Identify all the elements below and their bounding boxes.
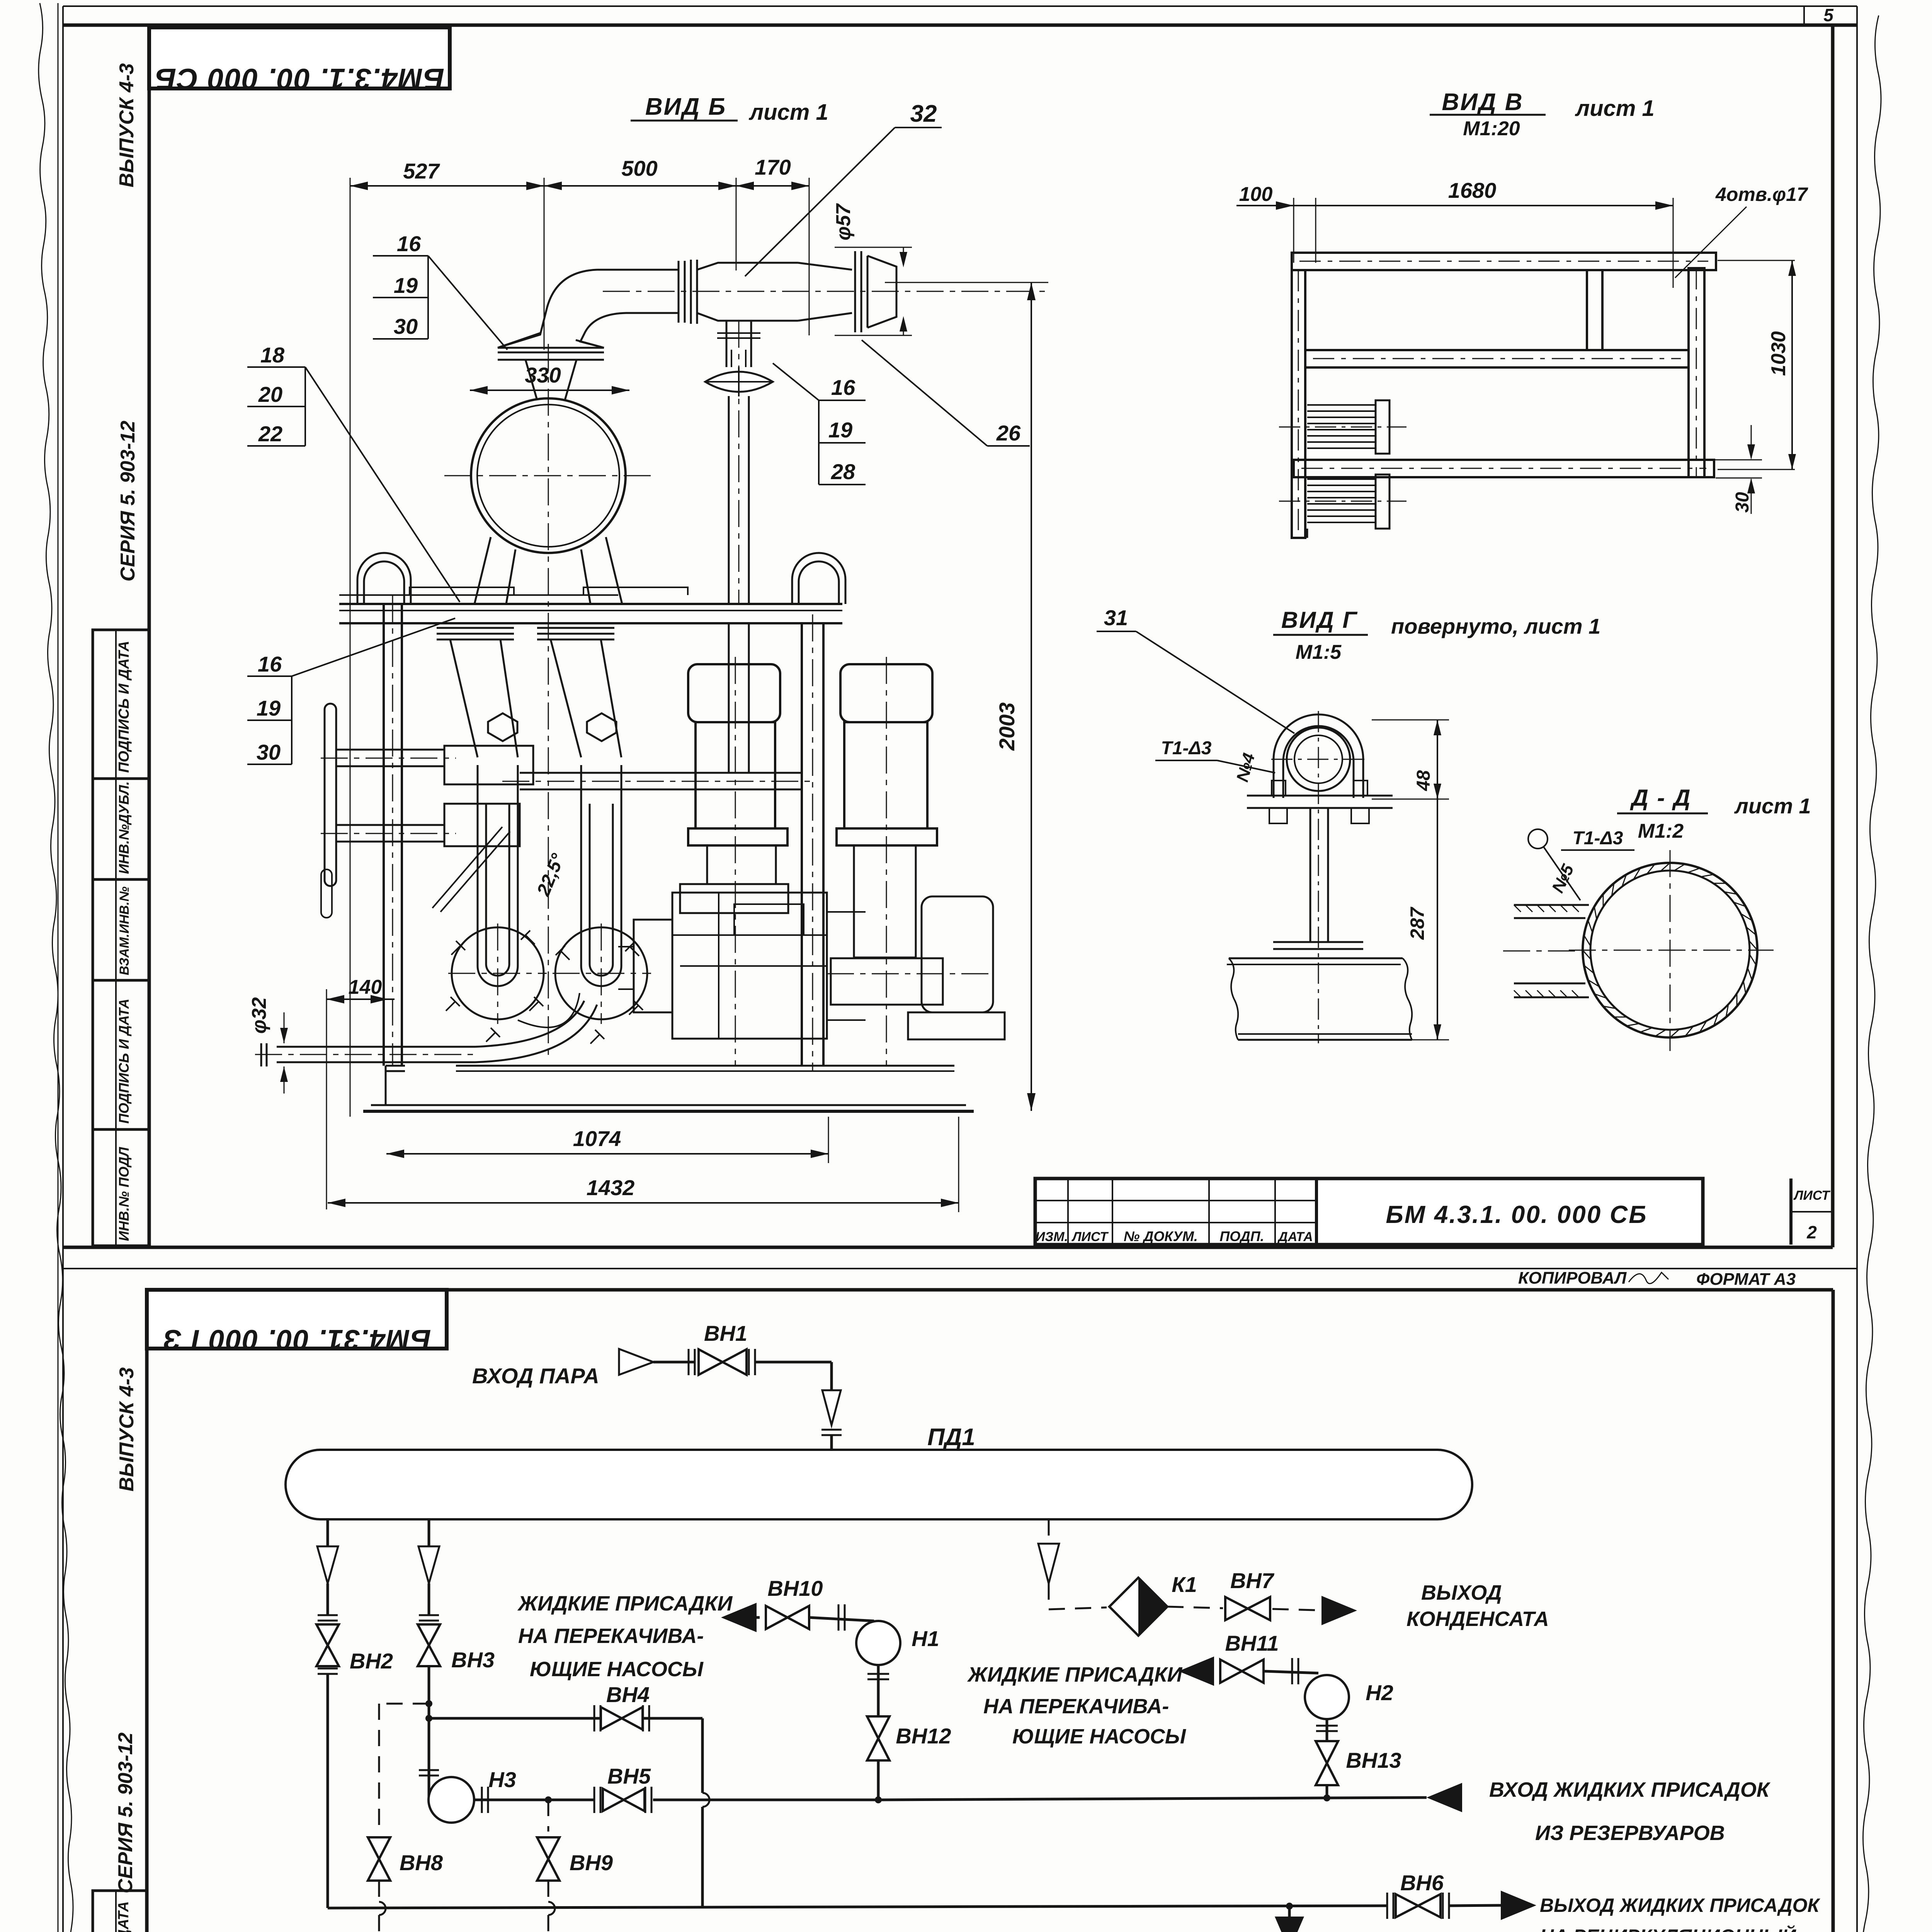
svg-text:1432: 1432 (587, 1175, 635, 1200)
svg-text:ПД1: ПД1 (927, 1424, 975, 1451)
svg-text:ПОДПИСЬ И ДАТА: ПОДПИСЬ И ДАТА (116, 998, 132, 1124)
svg-text:30: 30 (394, 314, 418, 338)
U-bolt left (357, 553, 411, 604)
dashed ВН7 to outlet (1272, 1609, 1329, 1611)
svg-text:ВН1: ВН1 (704, 1321, 747, 1345)
base (363, 1066, 974, 1111)
big pipe under clamp (1227, 958, 1412, 1040)
svg-text:19: 19 (257, 696, 281, 720)
top sheet margin cells (93, 630, 149, 1246)
view title ВИД Б (631, 94, 828, 125)
svg-text:ЮЩИЕ НАСОСЫ: ЮЩИЕ НАСОСЫ (530, 1658, 704, 1681)
section D-D pipe circle (1503, 850, 1774, 1051)
callout stack 16 19 30 upper (373, 231, 507, 350)
svg-text:ПОДПИСЬ И ДАТА: ПОДПИСЬ И ДАТА (116, 641, 132, 773)
frame structure view V (1292, 253, 1716, 538)
svg-text:ВХОД ЖИДКИХ ПРИСАДОК: ВХОД ЖИДКИХ ПРИСАДОК (1489, 1778, 1771, 1801)
wire ВН10 to pump H1 (809, 1617, 874, 1621)
callout stack 18 20 22 (247, 343, 460, 602)
U-bolt right (792, 553, 845, 604)
labels T1-D3 no4 (1155, 738, 1275, 784)
long additive wire to right (653, 1794, 1427, 1803)
valve ВН7 (1225, 1568, 1275, 1620)
svg-text:ПОДПИСЬ И ДАТА: ПОДПИСЬ И ДАТА (116, 1901, 132, 1932)
valve ВН3 (418, 1624, 495, 1672)
svg-text:лист 1: лист 1 (748, 100, 828, 125)
wire ВН13 to header (1326, 1785, 1328, 1798)
label ЖИДКИЕ ПРИСАДКИ НА ПЕРЕКАЧИВАЮЩИЕ НАСОСЫ right (967, 1663, 1186, 1748)
motors right (680, 657, 943, 1066)
top sheet frame (63, 25, 1857, 1247)
svg-text:Н1: Н1 (912, 1626, 939, 1651)
bottom sheet left margin texts (114, 1367, 138, 1893)
condensate outlet arrow (1321, 1596, 1357, 1625)
valve ВН1 (689, 1321, 755, 1375)
svg-text:НА ПЕРЕКАЧИВА-: НА ПЕРЕКАЧИВА- (518, 1624, 704, 1648)
svg-text:19: 19 (394, 273, 418, 298)
label ВХОД ЖИДКИХ ПРИСАДОК ИЗ РЕЗЕРВУАРОВ (1489, 1778, 1771, 1845)
top sheet title block (1035, 1179, 1833, 1289)
dashed below ВН9 to drain header (379, 1881, 555, 1932)
svg-text:ВИД В: ВИД В (1442, 89, 1523, 116)
label ВЫХОД КОНДЕНСАТА (1406, 1581, 1549, 1631)
svg-text:16: 16 (397, 231, 421, 256)
dim 140 and phi32 (248, 976, 395, 1209)
svg-text:ЖИДКИЕ ПРИСАДКИ: ЖИДКИЕ ПРИСАДКИ (967, 1663, 1183, 1686)
svg-text:16: 16 (258, 652, 282, 676)
valve ВН4 (594, 1682, 650, 1731)
dimension 330 (470, 363, 629, 395)
wire Н3 to ВН5 (474, 1787, 594, 1813)
label ВЫХОД ЖИДКИХ ПРИСАДОК НА РЕЦИРКУЛЯЦИОННЫЙ РАЗОГРЕВ РЕЗЕРВУАРОВ (1540, 1895, 1821, 1932)
pump casings with bolt circles (446, 765, 651, 1044)
pump drive units (618, 893, 1005, 1039)
pump suction pipes (437, 628, 621, 757)
svg-text:ИЗ РЕЗЕРВУАРОВ: ИЗ РЕЗЕРВУАРОВ (1535, 1821, 1725, 1845)
handwheels left (321, 704, 336, 918)
svg-text:СЕРИЯ 5. 903-12: СЕРИЯ 5. 903-12 (114, 1733, 137, 1893)
wire ВН4 corner down (702, 1718, 709, 1908)
svg-text:ВХОД ПАРА: ВХОД ПАРА (472, 1364, 599, 1388)
svg-text:М1:2: М1:2 (1638, 820, 1684, 842)
svg-text:лист 1: лист 1 (1575, 96, 1655, 121)
pump Н3 (429, 1767, 516, 1823)
svg-text:1074: 1074 (573, 1126, 621, 1151)
finned tube bundles (1279, 400, 1406, 538)
callout stack 16 19 28 right (773, 363, 866, 485)
wire ВН2 down (327, 1674, 329, 1908)
dim 1432 (328, 1117, 959, 1212)
svg-text:ВИД Г: ВИД Г (1281, 607, 1358, 633)
condensate dashed from drum (1038, 1519, 1107, 1609)
svg-text:ВН8: ВН8 (400, 1850, 443, 1875)
svg-text:Н3: Н3 (488, 1767, 516, 1792)
svg-text:4отв.φ17: 4отв.φ17 (1715, 184, 1808, 205)
dims 48 287 (1372, 720, 1449, 1040)
svg-text:28: 28 (831, 459, 855, 484)
bottom sheet stamp box (147, 1290, 447, 1356)
manifold with hex bolts (321, 713, 616, 846)
svg-text:1680: 1680 (1448, 178, 1497, 202)
svg-text:ИЗМ.: ИЗМ. (1036, 1230, 1068, 1244)
pump H2 branch outlet arrow (1179, 1656, 1214, 1686)
svg-text:16: 16 (831, 375, 855, 400)
wire H2 down to ВН13 (1316, 1719, 1338, 1741)
svg-text:повернуто, лист 1: повернуто, лист 1 (1391, 614, 1600, 638)
dashed below ВН8 (376, 1881, 386, 1932)
svg-text:26: 26 (996, 421, 1021, 445)
view title ВИД Г (1273, 607, 1600, 663)
wire ВН1 to drum (755, 1362, 832, 1390)
callout stack 16 19 30 left-mid (247, 618, 455, 764)
wire ВН3 down with junctions (419, 1666, 439, 1777)
reducer nozzle into drum (821, 1390, 842, 1450)
heater drum ПД1 (286, 1424, 1472, 1519)
svg-text:ВЗАМ.ИНВ.№: ВЗАМ.ИНВ.№ (117, 886, 132, 975)
dim 2003 (885, 282, 1048, 1111)
svg-text:ВЫПУСК 4-3: ВЫПУСК 4-3 (116, 1367, 138, 1492)
svg-text:ВН10: ВН10 (767, 1576, 823, 1600)
svg-text:ВН4: ВН4 (606, 1682, 650, 1707)
valve ВН12 (867, 1716, 951, 1760)
svg-text:19: 19 (828, 418, 852, 442)
svg-text:БМ4.3.1. 00. 000 СБ: БМ4.3.1. 00. 000 СБ (155, 62, 444, 95)
dims of view V (1236, 178, 1808, 514)
svg-text:ВН9: ВН9 (570, 1850, 613, 1875)
svg-text:ИНВ.№ ПОДЛ: ИНВ.№ ПОДЛ (116, 1146, 132, 1241)
svg-text:ВЫПУСК 4-3: ВЫПУСК 4-3 (116, 63, 138, 187)
dimension 527 500 170 (350, 155, 809, 1117)
outlet arrow recirculation (1449, 1891, 1536, 1920)
platform beam (339, 587, 842, 623)
view title Д-Д (1617, 785, 1811, 842)
svg-text:БМ4.31. 00. 000 ГЗ: БМ4.31. 00. 000 ГЗ (163, 1324, 431, 1356)
svg-text:ЛИСТ: ЛИСТ (1071, 1230, 1109, 1244)
torn left edge of binder page (39, 3, 79, 1932)
svg-text:ЮЩИЕ НАСОСЫ: ЮЩИЕ НАСОСЫ (1012, 1725, 1186, 1748)
valve ВН13 (1316, 1741, 1401, 1785)
label ЖИДКИЕ ПРИСАДКИ НА ПЕРЕКАЧИВАЮЩИЕ НАСОСЫ left (517, 1592, 733, 1681)
svg-text:К1: К1 (1172, 1572, 1197, 1597)
svg-text:НА ПЕРЕКАЧИВА-: НА ПЕРЕКАЧИВА- (983, 1695, 1169, 1718)
svg-text:500: 500 (621, 156, 657, 180)
frame posts (384, 595, 823, 1070)
svg-text:30: 30 (1732, 492, 1753, 513)
svg-text:330: 330 (525, 363, 561, 387)
bottom sheet margin cells (93, 1891, 147, 1932)
pump Н1 (856, 1621, 939, 1665)
valve ВН9 (537, 1837, 613, 1881)
condensate trap К1 (1109, 1572, 1197, 1636)
svg-text:22: 22 (258, 422, 282, 446)
svg-text:СЕРИЯ 5. 903-12: СЕРИЯ 5. 903-12 (117, 421, 139, 582)
svg-text:2: 2 (1806, 1222, 1817, 1242)
torn right edge of binder page (1858, 15, 1881, 1932)
svg-text:170: 170 (755, 155, 791, 179)
top sheet stamp box (149, 27, 450, 95)
drain nozzle left 2 (418, 1519, 439, 1621)
tee vertical pipe with valve (705, 321, 773, 604)
mid manifold pipe (502, 623, 811, 789)
tank saddle legs (474, 537, 622, 604)
svg-text:100: 100 (1239, 183, 1273, 206)
dashed link ВН9 (548, 1800, 549, 1832)
svg-text:ВН13: ВН13 (1346, 1748, 1401, 1772)
dashed drain line from ВН3 (379, 1704, 429, 1832)
svg-text:лист 1: лист 1 (1734, 794, 1811, 818)
svg-text:ВН3: ВН3 (451, 1648, 495, 1672)
dashed К1 to ВН7 (1167, 1607, 1223, 1608)
svg-text:31: 31 (1104, 605, 1128, 630)
pump Н2 (1305, 1675, 1393, 1719)
valve ВН6 (1387, 1871, 1449, 1919)
valve ВН11 (1220, 1631, 1298, 1684)
svg-text:М1:20: М1:20 (1463, 117, 1520, 140)
svg-text:ВН5: ВН5 (607, 1764, 651, 1788)
label T1-D3 no5 (1528, 828, 1634, 900)
svg-text:48: 48 (1413, 770, 1434, 791)
wire steam inlet to ВН1 (653, 1361, 696, 1364)
valve ВН2 (316, 1624, 393, 1674)
valve ВН8 (368, 1837, 443, 1881)
svg-text:Д - Д: Д - Д (1630, 785, 1692, 811)
svg-text:φ32: φ32 (248, 997, 270, 1034)
svg-text:ВИД Б: ВИД Б (645, 94, 726, 120)
svg-text:ВЫХОД ЖИДКИХ ПРИСАДОК: ВЫХОД ЖИДКИХ ПРИСАДОК (1540, 1895, 1821, 1916)
svg-text:БМ 4.3.1. 00. 000 СБ: БМ 4.3.1. 00. 000 СБ (1386, 1201, 1647, 1228)
flange under elbow (498, 333, 604, 400)
diagonal brace (432, 827, 510, 912)
view title ВИД В (1430, 89, 1655, 140)
horizontal pipe with elbow and tee (500, 251, 1048, 347)
svg-text:№ ДОКУМ.: № ДОКУМ. (1124, 1228, 1198, 1244)
svg-text:140: 140 (349, 976, 382, 998)
svg-text:М1:5: М1:5 (1296, 641, 1342, 663)
svg-text:32: 32 (910, 100, 937, 127)
page number 5 box (1804, 5, 1834, 25)
svg-text:2003: 2003 (995, 702, 1019, 751)
callout 32 (745, 100, 942, 276)
svg-text:30: 30 (257, 740, 281, 764)
tank heating down arrow (1275, 1906, 1304, 1932)
callout 31 (1097, 605, 1294, 733)
tank big circle (444, 344, 653, 1059)
callout 26 (862, 340, 1030, 446)
drain pipe bottom left (255, 1001, 597, 1066)
svg-text:ВН6: ВН6 (1400, 1871, 1444, 1895)
svg-text:ВН12: ВН12 (896, 1724, 951, 1748)
svg-text:527: 527 (403, 159, 440, 183)
valve ВН10 (766, 1576, 845, 1631)
svg-text:Т1-Δ3: Т1-Δ3 (1161, 738, 1212, 759)
svg-text:ПОДП.: ПОДП. (1219, 1228, 1264, 1244)
svg-text:287: 287 (1406, 906, 1428, 940)
svg-text:ВН11: ВН11 (1225, 1631, 1279, 1655)
dimension phi57 (832, 203, 912, 335)
svg-text:18: 18 (260, 343, 285, 367)
drain nozzle left 1 (317, 1519, 338, 1621)
top sheet left margin texts (116, 63, 139, 582)
svg-text:1030: 1030 (1767, 331, 1790, 376)
svg-text:ИНВ.№ДУБЛ.: ИНВ.№ДУБЛ. (116, 781, 132, 874)
pipe clamp (1247, 711, 1393, 1043)
svg-text:ФОРМАТ А3: ФОРМАТ А3 (1696, 1270, 1796, 1289)
dim 1074 (386, 1117, 828, 1163)
svg-text:ВН2: ВН2 (350, 1649, 393, 1673)
steam inlet open arrow (619, 1349, 653, 1375)
bottom sheet frame (147, 1290, 1833, 1932)
separation line between sheets (63, 1268, 1857, 1269)
svg-text:КОНДЕНСАТА: КОНДЕНСАТА (1406, 1607, 1549, 1631)
svg-text:20: 20 (258, 382, 282, 406)
wire arrow to ВН10 (757, 1616, 760, 1619)
svg-text:ДАТА: ДАТА (1277, 1230, 1313, 1244)
svg-text:Н2: Н2 (1366, 1680, 1393, 1705)
valve ВН5 (594, 1764, 651, 1813)
svg-text:ЖИДКИЕ ПРИСАДКИ: ЖИДКИЕ ПРИСАДКИ (517, 1592, 733, 1615)
svg-text:ВН7: ВН7 (1230, 1568, 1275, 1593)
svg-text:ЛИСТ: ЛИСТ (1793, 1188, 1831, 1203)
svg-text:ВЫХОД: ВЫХОД (1421, 1581, 1502, 1604)
pump H1 branch: outlet arrow (721, 1603, 757, 1632)
wire ВН11 to pump Н2 (1264, 1671, 1318, 1673)
bottom recirculation header (328, 1903, 1387, 1910)
wire to ВН4 (429, 1717, 702, 1720)
svg-text:φ57: φ57 (832, 203, 855, 241)
svg-text:НА РЕЦИРКУЛЯЦИОННЫЙ: НА РЕЦИРКУЛЯЦИОННЫЙ (1540, 1925, 1796, 1932)
wire H1 down to ВН12 (867, 1665, 889, 1716)
svg-text:5: 5 (1823, 5, 1834, 25)
wire ВН12 to header (877, 1760, 880, 1800)
svg-text:Т1-Δ3: Т1-Δ3 (1573, 828, 1623, 849)
svg-text:КОПИРОВАЛ: КОПИРОВАЛ (1518, 1269, 1627, 1287)
inlet arrow from reservoirs (1427, 1783, 1462, 1812)
